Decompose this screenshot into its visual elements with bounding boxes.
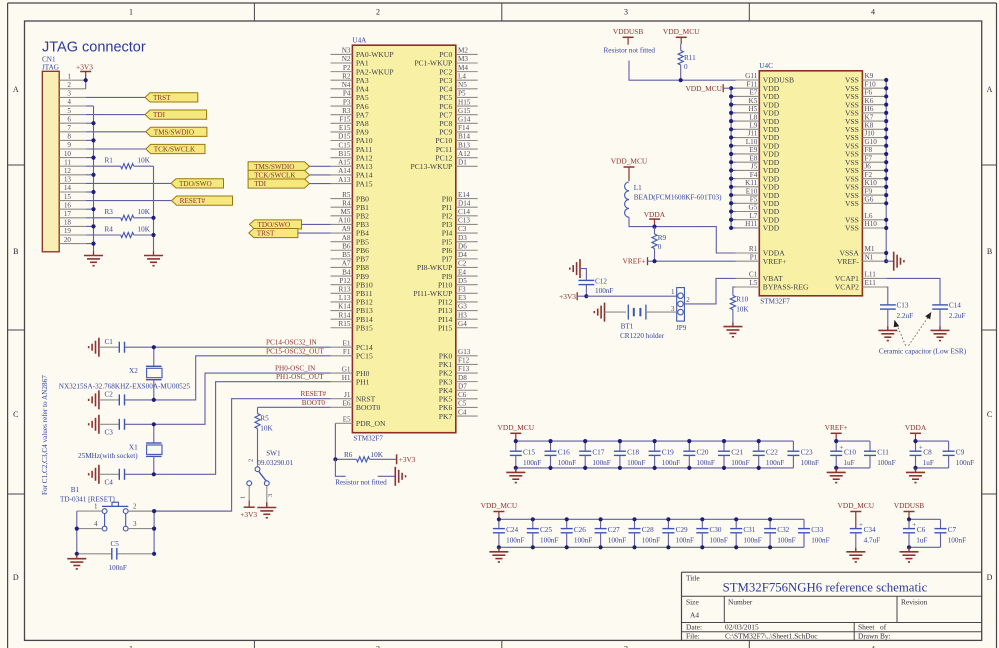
- port TRST: [145, 93, 198, 102]
- wire NRST net: [126, 399, 331, 511]
- junction R11 VDDUSB: [679, 78, 683, 82]
- svg-text:100nF: 100nF: [811, 536, 829, 544]
- svg-text:PB15: PB15: [356, 323, 373, 332]
- svg-text:3: 3: [67, 90, 71, 98]
- resistor R3: [86, 208, 154, 220]
- power VDDA at bank: [905, 423, 927, 441]
- svg-text:C33: C33: [811, 526, 823, 534]
- svg-text:N4: N4: [342, 81, 351, 89]
- svg-text:4: 4: [871, 8, 875, 17]
- svg-text:X2: X2: [129, 367, 138, 375]
- svg-text:+3V3: +3V3: [240, 510, 257, 519]
- svg-text:100nF: 100nF: [662, 459, 680, 467]
- svg-text:C1: C1: [105, 338, 114, 346]
- wire VDDUSB branch: [629, 61, 681, 81]
- capacitor C15: [510, 441, 542, 468]
- wire VDDUSB decoupling bus: [909, 519, 941, 547]
- svg-text:C24: C24: [506, 526, 518, 534]
- wire pin3 to TRST: [86, 96, 145, 98]
- svg-text:TDO/SWO: TDO/SWO: [179, 180, 212, 188]
- junction pin1 +3V3: [84, 78, 88, 82]
- U4C VSS pins: [845, 72, 886, 233]
- svg-text:F2: F2: [865, 171, 873, 179]
- svg-text:F9: F9: [865, 187, 873, 195]
- connector JP9: [671, 288, 690, 332]
- svg-text:JTAG: JTAG: [42, 64, 59, 72]
- svg-text:C4: C4: [105, 479, 114, 487]
- power VDD_MCU at bank: [498, 423, 535, 441]
- capacitor C1: [89, 338, 154, 357]
- svg-text:F11: F11: [746, 80, 757, 88]
- svg-text:100nF: 100nF: [801, 459, 819, 467]
- svg-text:2: 2: [248, 459, 255, 462]
- U4A port I pins right: [413, 191, 477, 333]
- U4C analog pins: [736, 245, 810, 292]
- ground rail even pins: [86, 106, 94, 252]
- svg-text:+3V3: +3V3: [559, 292, 576, 301]
- svg-text:C9: C9: [956, 449, 965, 457]
- svg-text:13: 13: [64, 176, 72, 184]
- svg-text:K7: K7: [865, 113, 874, 121]
- svg-text:L13: L13: [339, 294, 351, 302]
- svg-text:C13: C13: [458, 217, 470, 225]
- svg-text:3: 3: [133, 520, 137, 528]
- capacitor C2: [89, 390, 154, 409]
- svg-text:E4: E4: [458, 268, 466, 276]
- svg-text:D1: D1: [458, 159, 467, 167]
- svg-text:L9: L9: [749, 122, 757, 130]
- svg-text:B13: B13: [458, 141, 470, 149]
- svg-text:A: A: [13, 85, 19, 94]
- wire B1 right net: [117, 511, 232, 554]
- svg-text:G15: G15: [458, 107, 471, 115]
- svg-text:C30: C30: [710, 526, 722, 534]
- svg-text:H6: H6: [865, 105, 874, 113]
- svg-text:BOOT0: BOOT0: [302, 399, 326, 407]
- svg-text:C10: C10: [844, 449, 856, 457]
- svg-text:4.7uF: 4.7uF: [864, 536, 881, 544]
- ground at CN1 rail: [84, 251, 103, 265]
- capacitor C30: [696, 519, 728, 547]
- svg-text:L6: L6: [865, 212, 873, 220]
- svg-text:H10: H10: [865, 220, 878, 228]
- svg-text:C15: C15: [339, 141, 351, 149]
- svg-text:PC15-OSC32_OUT: PC15-OSC32_OUT: [266, 347, 325, 355]
- svg-text:VREF+: VREF+: [623, 257, 646, 266]
- svg-text:100nF: 100nF: [574, 536, 592, 544]
- svg-text:R6: R6: [344, 451, 353, 459]
- capacitor C27: [595, 519, 627, 547]
- svg-text:18: 18: [64, 219, 72, 227]
- svg-text:C32: C32: [777, 526, 789, 534]
- svg-text:F13: F13: [458, 365, 470, 373]
- svg-text:C7: C7: [948, 526, 957, 534]
- svg-text:R10: R10: [736, 295, 748, 303]
- wire pin7 to TMS/SWDIO: [86, 131, 146, 133]
- junctions ground rail: [91, 121, 95, 246]
- svg-text:N2: N2: [342, 55, 351, 63]
- wire VDD_MCU decoupling bus C15-C23: [516, 441, 794, 468]
- svg-text:P3: P3: [343, 98, 351, 106]
- capacitor C14: [932, 302, 965, 331]
- svg-text:L8: L8: [749, 113, 757, 121]
- svg-text:20: 20: [64, 236, 72, 244]
- MCU U4A body: [352, 45, 455, 433]
- svg-text:VDD_MCU: VDD_MCU: [611, 157, 648, 166]
- wire VREF+ to P1: [655, 260, 736, 262]
- svg-text:D8: D8: [458, 374, 467, 382]
- capacitor C7: [935, 519, 967, 547]
- svg-text:VDD_MCU: VDD_MCU: [498, 423, 535, 432]
- svg-text:Title: Title: [686, 574, 700, 583]
- svg-text:F8: F8: [865, 146, 873, 154]
- svg-text:K6: K6: [865, 97, 874, 105]
- svg-text:VDD_MCU: VDD_MCU: [663, 27, 700, 36]
- svg-text:K8: K8: [865, 122, 874, 130]
- svg-text:TCK/SWCLK: TCK/SWCLK: [254, 172, 296, 180]
- svg-text:F12: F12: [458, 357, 470, 365]
- svg-text:G4: G4: [458, 320, 467, 328]
- svg-text:11: 11: [64, 158, 71, 166]
- svg-text:C5: C5: [111, 540, 120, 548]
- ground at pullup rail: [144, 251, 163, 265]
- title block: [682, 572, 982, 641]
- svg-text:STM32F7: STM32F7: [353, 435, 383, 443]
- label VREF+: [623, 257, 655, 266]
- svg-text:P2: P2: [343, 64, 351, 72]
- junctions bank C15: [514, 439, 761, 470]
- svg-text:+: +: [919, 444, 923, 452]
- svg-text:J5: J5: [751, 163, 758, 171]
- svg-text:P5: P5: [458, 90, 466, 98]
- svg-text:C31: C31: [743, 526, 755, 534]
- junction B1 right: [152, 509, 156, 556]
- svg-text:PH1: PH1: [356, 377, 370, 386]
- capacitor C23: [787, 441, 819, 468]
- power +3V3 at CN1 pin1: [76, 62, 93, 80]
- svg-text:A8: A8: [342, 234, 351, 242]
- svg-text:PC15: PC15: [356, 352, 373, 361]
- wire VCAP1 to C14: [886, 278, 940, 305]
- svg-text:VDDUSB: VDDUSB: [894, 501, 924, 510]
- wire R6 not fitted branch: [335, 459, 395, 476]
- svg-text:19: 19: [64, 227, 72, 235]
- svg-text:1: 1: [129, 8, 133, 17]
- svg-text:2.2uF: 2.2uF: [897, 312, 914, 320]
- push button B1: [60, 486, 137, 531]
- svg-text:K11: K11: [745, 179, 758, 187]
- svg-text:N5: N5: [458, 81, 467, 89]
- svg-text:VSS: VSS: [845, 199, 859, 208]
- svg-text:C18: C18: [627, 449, 639, 457]
- svg-text:A7: A7: [342, 260, 351, 268]
- svg-text:H1: H1: [342, 374, 351, 382]
- wire VDDA decoupling bus: [916, 441, 949, 468]
- capacitor C32: [764, 519, 796, 547]
- svg-text:File:: File:: [686, 632, 700, 641]
- svg-text:2: 2: [376, 645, 380, 648]
- svg-text:E8: E8: [749, 154, 757, 162]
- svg-text:C22: C22: [766, 449, 778, 457]
- svg-text:1uF: 1uF: [843, 459, 854, 467]
- ground at R6 branch: [395, 467, 405, 486]
- svg-text:J1: J1: [344, 391, 351, 399]
- power VDDA: [644, 210, 666, 227]
- wire pin13 to TDO/SWO: [86, 182, 171, 184]
- svg-text:G11: G11: [745, 72, 758, 80]
- svg-text:C: C: [987, 410, 992, 419]
- label +3V3 at C12: [559, 292, 586, 301]
- wire L1 to VDDA node: [629, 217, 736, 253]
- capacitor C8: [910, 441, 934, 468]
- power +3V3 at SW1: [240, 486, 257, 519]
- junction R3 rail: [151, 216, 155, 220]
- svg-text:Resistor not fitted: Resistor not fitted: [335, 478, 387, 486]
- svg-text:C2: C2: [105, 391, 114, 399]
- svg-text:1uF: 1uF: [923, 459, 934, 467]
- power +3V3 at R6: [397, 454, 416, 464]
- svg-text:C5: C5: [458, 400, 467, 408]
- svg-text:2: 2: [376, 8, 380, 17]
- junction C3 X1: [152, 422, 156, 426]
- svg-text:R1: R1: [105, 157, 114, 165]
- svg-text:TMS/SWDIO: TMS/SWDIO: [254, 163, 294, 171]
- svg-text:B1: B1: [71, 486, 80, 494]
- svg-text:C15: C15: [523, 449, 535, 457]
- capacitor C17: [579, 441, 611, 468]
- port TDO/SWO at CN1: [171, 179, 224, 188]
- junction R6: [333, 457, 337, 461]
- svg-text:VDD_MCU: VDD_MCU: [685, 84, 722, 93]
- power VDD_MCU at L1: [611, 157, 648, 182]
- svg-text:100nF: 100nF: [558, 459, 576, 467]
- svg-text:Ceramic capacitor (Low ESR): Ceramic capacitor (Low ESR): [879, 348, 967, 356]
- ground at bank C24: [489, 547, 508, 562]
- svg-text:D3: D3: [458, 234, 467, 242]
- svg-text:C34: C34: [864, 526, 876, 534]
- svg-text:U4A: U4A: [352, 37, 367, 45]
- svg-text:PH0-OSC_IN: PH0-OSC_IN: [275, 365, 316, 373]
- svg-text:C12: C12: [595, 278, 607, 286]
- capacitor C12: [579, 278, 614, 297]
- svg-text:Date:: Date:: [686, 623, 702, 632]
- capacitor C16: [545, 441, 577, 468]
- svg-text:R3: R3: [105, 208, 114, 216]
- svg-text:C8: C8: [923, 449, 932, 457]
- capacitor C31: [730, 519, 762, 547]
- svg-text:PI15: PI15: [438, 323, 453, 332]
- resistor R1: [86, 157, 154, 169]
- svg-text:N3: N3: [342, 47, 351, 55]
- junctions bank C10: [834, 439, 838, 470]
- svg-text:VDD_MCU: VDD_MCU: [481, 501, 518, 510]
- svg-text:TRST: TRST: [153, 94, 171, 102]
- capacitor C20: [683, 441, 715, 468]
- resistor R4: [86, 225, 154, 237]
- svg-text:F3: F3: [458, 286, 466, 294]
- wire B1 left net: [77, 511, 112, 554]
- svg-text:2.2uF: 2.2uF: [949, 312, 966, 320]
- wire JP9 pin2 to VBAT: [684, 278, 735, 304]
- svg-text:VDDA: VDDA: [905, 423, 927, 432]
- resistor R11: [678, 44, 696, 80]
- svg-text:K10: K10: [865, 179, 878, 187]
- switch SW1: [240, 449, 294, 499]
- svg-text:P12: P12: [339, 277, 351, 285]
- svg-text:B6: B6: [342, 242, 351, 250]
- svg-text:1uF: 1uF: [916, 536, 927, 544]
- svg-text:C14: C14: [949, 302, 961, 310]
- svg-text:100nF: 100nF: [743, 536, 761, 544]
- wire PC14-OSC32_IN: [154, 346, 331, 348]
- wire pin1-pin2 to +3V3: [85, 80, 87, 89]
- ground at bank C15: [506, 468, 525, 483]
- svg-text:P4: P4: [343, 90, 351, 98]
- svg-text:100nF: 100nF: [877, 459, 895, 467]
- svg-text:TDI: TDI: [153, 111, 166, 119]
- svg-text:A15: A15: [338, 159, 351, 167]
- svg-text:Revision: Revision: [901, 598, 928, 607]
- crystal X2: [59, 347, 191, 400]
- svg-text:3: 3: [624, 645, 628, 648]
- svg-text:E3: E3: [458, 294, 466, 302]
- svg-text:100nF: 100nF: [777, 536, 795, 544]
- svg-text:TD-0341 [RESET]: TD-0341 [RESET]: [60, 496, 115, 504]
- svg-text:CR1220 holder: CR1220 holder: [620, 332, 665, 340]
- svg-text:A14: A14: [338, 167, 351, 175]
- svg-text:R3: R3: [342, 107, 351, 115]
- svg-text:Sheet: Sheet: [858, 623, 875, 632]
- svg-text:C6: C6: [458, 391, 467, 399]
- junctions bank C6: [907, 517, 911, 549]
- capacitor C28: [629, 519, 661, 547]
- svg-text:R13: R13: [339, 286, 351, 294]
- svg-text:B4: B4: [342, 268, 351, 276]
- ground at C34: [846, 548, 865, 562]
- svg-text:VCAP2: VCAP2: [835, 283, 859, 292]
- svg-text:C14: C14: [458, 208, 470, 216]
- svg-text:3: 3: [267, 494, 274, 497]
- capacitor C21: [718, 441, 750, 468]
- U4C analog pins right: [835, 245, 886, 292]
- svg-text:4: 4: [94, 520, 98, 528]
- svg-text:BT1: BT1: [621, 323, 634, 331]
- U4A PC14 PC15 pins: [331, 339, 373, 360]
- capacitor C34: [850, 521, 880, 552]
- svg-text:E1: E1: [343, 339, 351, 347]
- power VDD_MCU top: [663, 27, 700, 44]
- svg-text:G6: G6: [865, 196, 874, 204]
- junctions VDD bus: [729, 86, 733, 230]
- svg-text:F14: F14: [458, 124, 470, 132]
- svg-text:10K: 10K: [736, 305, 749, 313]
- capacitor C13: [880, 302, 913, 331]
- svg-text:H11: H11: [745, 220, 758, 228]
- svg-text:TDI: TDI: [254, 180, 267, 188]
- wire PH1-OSC_OUT: [154, 382, 331, 475]
- svg-text:R11: R11: [684, 54, 696, 62]
- pullup rail: [153, 166, 155, 252]
- U4A PDR_ON pin: [335, 416, 386, 429]
- inductor L1 ferrite bead: [625, 182, 723, 217]
- capacitor C26: [561, 519, 593, 547]
- port RESET#: [172, 196, 233, 205]
- svg-text:J10: J10: [865, 130, 875, 138]
- svg-text:RESET#: RESET#: [301, 390, 327, 398]
- svg-text:1: 1: [671, 288, 675, 296]
- svg-text:C23: C23: [801, 449, 813, 457]
- ground at C13: [878, 326, 897, 340]
- svg-text:2: 2: [133, 502, 137, 510]
- svg-text:E5: E5: [343, 416, 351, 424]
- svg-text:L10: L10: [746, 138, 758, 146]
- svg-text:G5: G5: [749, 204, 758, 212]
- svg-text:10: 10: [64, 150, 72, 158]
- svg-text:2: 2: [67, 81, 71, 89]
- capacitor C10: [830, 441, 856, 468]
- svg-text:C1: C1: [749, 271, 758, 279]
- ground at VREF-: [886, 252, 904, 271]
- svg-text:SW1: SW1: [266, 449, 281, 457]
- svg-text:BEAD(FCM1608KF-601T03): BEAD(FCM1608KF-601T03): [634, 194, 722, 202]
- resistor R10: [730, 295, 749, 326]
- svg-text:C25: C25: [540, 526, 552, 534]
- svg-text:C11: C11: [877, 449, 889, 457]
- svg-text:D4: D4: [458, 251, 467, 259]
- svg-text:C19: C19: [662, 449, 674, 457]
- connector CN1 body: [42, 71, 59, 252]
- svg-text:G10: G10: [865, 138, 878, 146]
- svg-text:0: 0: [658, 243, 662, 251]
- svg-text:100nF: 100nF: [766, 459, 784, 467]
- svg-text:A9: A9: [342, 225, 351, 233]
- svg-text:C: C: [13, 410, 18, 419]
- power VREF+ at bank: [825, 423, 848, 441]
- power VDD_MCU at C34: [838, 501, 875, 529]
- svg-text:4: 4: [67, 98, 71, 106]
- svg-text:100nF: 100nF: [676, 536, 694, 544]
- svg-text:STM32F7: STM32F7: [760, 298, 790, 306]
- svg-text:JP9: JP9: [676, 324, 687, 332]
- svg-text:VDD: VDD: [763, 224, 780, 233]
- svg-text:E10: E10: [746, 187, 758, 195]
- svg-text:F10: F10: [865, 80, 877, 88]
- svg-text:PDR_ON: PDR_ON: [356, 419, 386, 428]
- svg-text:100nF: 100nF: [948, 536, 966, 544]
- svg-text:R14: R14: [339, 311, 351, 319]
- svg-text:C17: C17: [592, 449, 604, 457]
- power VDDUSB top: [613, 27, 643, 45]
- junction VDDA: [652, 225, 656, 229]
- svg-text:100nF: 100nF: [540, 536, 558, 544]
- svg-text:10K: 10K: [138, 157, 151, 165]
- wire VDD_MCU decoupling bus C24-C33: [499, 519, 804, 547]
- capacitor C19: [649, 441, 681, 468]
- port TMS/SWDIO: [146, 127, 207, 136]
- svg-text:NX3215SA-32.768KHZ-EXS00A-MU00: NX3215SA-32.768KHZ-EXS00A-MU00525: [59, 383, 191, 391]
- svg-text:1: 1: [129, 645, 133, 648]
- svg-text:of: of: [880, 623, 887, 632]
- power VDD_MCU at bank: [481, 501, 518, 519]
- svg-text:100nF: 100nF: [710, 536, 728, 544]
- svg-text:A12: A12: [458, 150, 471, 158]
- svg-text:C21: C21: [731, 449, 743, 457]
- svg-text:STM32F756NGH6 reference schema: STM32F756NGH6 reference schematic: [723, 581, 928, 595]
- svg-text:100nF: 100nF: [608, 536, 626, 544]
- svg-text:B: B: [987, 247, 992, 256]
- svg-text:10K: 10K: [260, 425, 273, 433]
- svg-text:TMS/SWDIO: TMS/SWDIO: [154, 128, 194, 136]
